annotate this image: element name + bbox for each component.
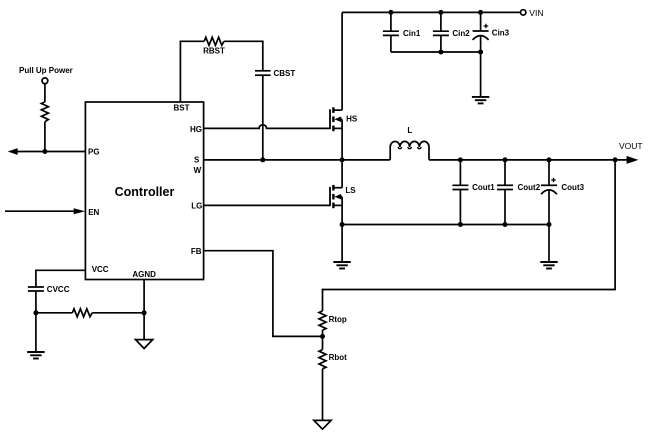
- svg-text:BST: BST: [174, 104, 190, 113]
- svg-text:EN: EN: [88, 208, 99, 217]
- terminal Pull Up Power open circle: [42, 78, 48, 84]
- svg-text:Cout1: Cout1: [472, 183, 495, 192]
- svg-text:Rbot: Rbot: [329, 353, 348, 362]
- resistor RBST: [204, 37, 224, 45]
- wire FB to divider: [204, 251, 323, 337]
- capacitor Cout2: [497, 160, 513, 225]
- ground Rbot signal-ground triangle: [314, 420, 331, 429]
- op-amp U1 controller box: [85, 102, 203, 280]
- svg-text:L: L: [407, 126, 412, 135]
- wire Cout3 to ground: [548, 225, 550, 263]
- node SW at HS source / LS drain: [340, 157, 345, 162]
- wire EN: [5, 210, 75, 212]
- ground symbol under Cin3: [472, 97, 489, 104]
- ground AGND signal-ground triangle: [136, 340, 153, 349]
- ground symbol under LS: [333, 262, 350, 269]
- arrowhead PG pointing left: [8, 148, 18, 155]
- wire LG: [204, 204, 330, 206]
- node VOUT rail at Cout3: [547, 157, 552, 162]
- node CVCC bottom: [33, 310, 38, 315]
- node ground rail at LS source: [340, 222, 345, 227]
- svg-text:VOUT: VOUT: [619, 141, 643, 151]
- node SW at CBST junction: [260, 157, 265, 162]
- wire CBST bottom to SW node: [262, 75, 264, 160]
- wire Cin rail to ground: [480, 52, 482, 97]
- wire HG with hop over CBST wire: [204, 125, 330, 129]
- node VOUT rail at feedback tap: [613, 157, 618, 162]
- node VIN rail at Cin3: [478, 10, 483, 15]
- capacitor Cin3 polarized: [473, 12, 489, 52]
- svg-text:HG: HG: [190, 125, 202, 134]
- svg-text:VIN: VIN: [529, 8, 543, 18]
- ground symbol under CVCC: [27, 352, 44, 359]
- resistor Rtop: [319, 311, 326, 330]
- node PG at pull-up: [42, 149, 47, 154]
- node VOUT rail at Cout1: [458, 157, 463, 162]
- node ground rail at Cout2: [503, 222, 508, 227]
- node Cin rail at Cin3: [478, 50, 483, 55]
- node VIN rail at Cin2: [438, 10, 443, 15]
- node ground rail at Cout3: [547, 222, 552, 227]
- svg-text:AGND: AGND: [132, 270, 156, 279]
- resistor Rbot: [319, 350, 326, 369]
- svg-text:CVCC: CVCC: [47, 285, 70, 294]
- capacitor Cout1: [452, 160, 468, 225]
- ground symbol under Cout3: [540, 262, 557, 269]
- svg-text:Cin2: Cin2: [452, 29, 470, 38]
- svg-text:Controller: Controller: [115, 185, 175, 199]
- capacitor Cin2: [433, 12, 449, 52]
- wire Cin ground rail: [391, 51, 481, 53]
- wire VIN rail: [342, 11, 520, 13]
- wire pull-up resistor to PG: [44, 122, 46, 152]
- svg-text:PG: PG: [88, 147, 100, 156]
- wire power ground rail under Cout: [342, 224, 549, 226]
- wire tap to Rbot: [322, 336, 324, 349]
- wire PG: [17, 151, 86, 153]
- wire resistor to AGND node: [92, 312, 144, 314]
- wire node to damping resistor: [36, 312, 73, 314]
- wire RBST to CBST top: [224, 41, 263, 71]
- resistor between CVCC and AGND: [72, 309, 92, 317]
- wire CVCC node to ground: [35, 313, 37, 352]
- inductor L: [390, 141, 429, 160]
- node at AGND wire: [142, 310, 147, 315]
- svg-text:Pull Up Power: Pull Up Power: [19, 66, 73, 75]
- capacitor Cin1: [383, 12, 399, 52]
- transistor HS: [330, 12, 342, 160]
- capacitor CBST: [255, 71, 271, 75]
- wire VCC pin to CVCC: [36, 270, 86, 287]
- wire SW rail from box to inductor: [204, 159, 391, 161]
- svg-text:FB: FB: [191, 247, 202, 256]
- wire terminal to pull-up resistor: [44, 84, 46, 102]
- wire Rtop to tap: [322, 330, 324, 336]
- svg-text:CBST: CBST: [274, 69, 296, 78]
- svg-text:S: S: [194, 156, 200, 165]
- svg-text:RBST: RBST: [203, 47, 225, 56]
- svg-text:VCC: VCC: [92, 265, 109, 274]
- svg-text:Cin1: Cin1: [403, 29, 421, 38]
- svg-text:Rtop: Rtop: [329, 315, 347, 324]
- capacitor CVCC: [28, 287, 44, 291]
- svg-text:HS: HS: [346, 115, 358, 124]
- wire BST riser from box top to RBST: [180, 41, 204, 102]
- node Cin rail at Cin2: [438, 50, 443, 55]
- arrowhead EN pointing right into box: [74, 208, 85, 214]
- svg-text:LS: LS: [345, 186, 356, 195]
- svg-text:LG: LG: [191, 202, 202, 211]
- capacitor Cout3 polarized: [541, 160, 557, 225]
- wire Rbot to ground: [322, 369, 324, 421]
- node VOUT rail at Cout2: [503, 157, 508, 162]
- svg-text:W: W: [194, 166, 202, 175]
- VOUT arrowhead: [627, 156, 639, 164]
- terminal VIN open circle: [521, 10, 526, 15]
- resistor pull-up: [41, 102, 48, 122]
- wire AGND pin down: [143, 280, 145, 340]
- node ground rail at Cout1: [458, 222, 463, 227]
- svg-text:Cout2: Cout2: [518, 183, 541, 192]
- svg-text:Cin3: Cin3: [492, 28, 510, 37]
- wire CVCC bottom to node: [35, 291, 37, 313]
- node VIN rail at Cin1: [388, 10, 393, 15]
- wire VOUT rail: [429, 159, 628, 161]
- transistor LS: [330, 160, 342, 225]
- node FB at divider tap: [320, 334, 325, 339]
- wire VOUT feedback down and left to Rtop: [323, 160, 616, 311]
- wire LS source to ground: [341, 225, 343, 263]
- svg-text:Cout3: Cout3: [561, 183, 584, 192]
